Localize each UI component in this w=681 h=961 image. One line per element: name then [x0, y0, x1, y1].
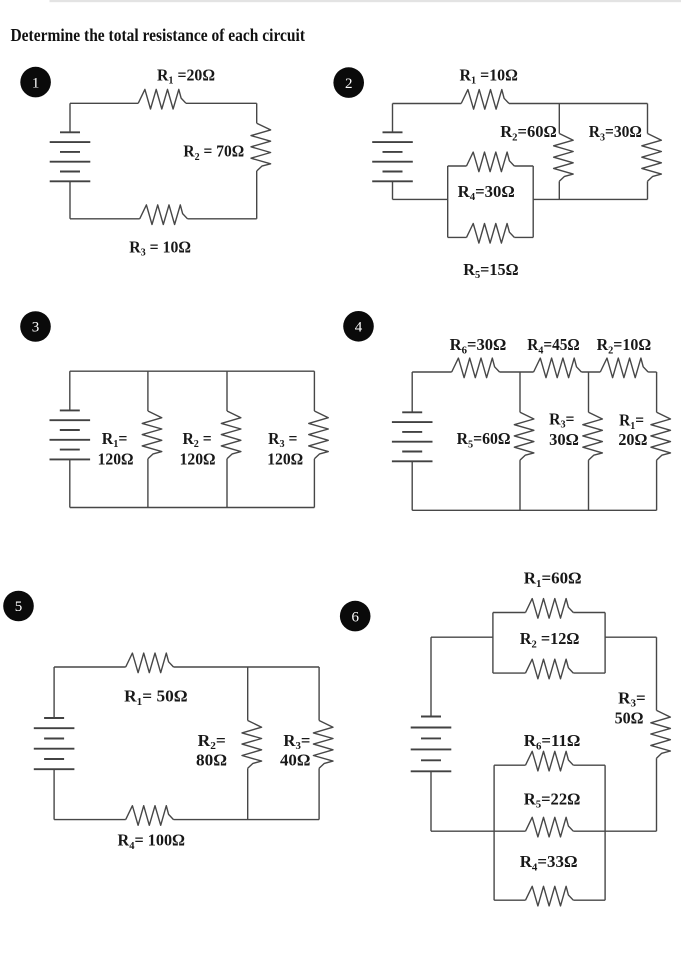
wire: R1 branch lower: [147, 459, 149, 508]
resistor R4 (45 ohm): [534, 358, 582, 378]
wire: R6 box top edge right: [573, 764, 605, 766]
svg-text:50Ω: 50Ω: [615, 709, 644, 728]
svg-text:R3=30Ω: R3=30Ω: [589, 122, 642, 143]
battery (circuit 4): [392, 412, 433, 461]
wire: circuit 2 right lower: [647, 181, 649, 199]
svg-text:120Ω: 120Ω: [98, 449, 134, 468]
resistor R4 (100 ohm): [126, 806, 174, 826]
wire: R2 branch upper: [558, 104, 560, 134]
svg-text:4: 4: [355, 320, 363, 336]
svg-text:R6=30Ω: R6=30Ω: [450, 335, 507, 356]
wire: circuit 4 top segment 4: [648, 371, 657, 373]
wire: circuit 3 top: [70, 370, 315, 372]
resistor R5 (60 ohm): [514, 412, 534, 460]
wire: circuit 5 top right: [174, 666, 320, 668]
wire: circuit 6 upper right horizontal: [605, 636, 656, 638]
problem number badge 2: [333, 67, 364, 98]
svg-text:R3=: R3=: [549, 410, 574, 431]
svg-text:R5=60Ω: R5=60Ω: [457, 429, 511, 450]
wire: circuit 6 bottom main left: [431, 830, 526, 832]
svg-text:R6=11Ω: R6=11Ω: [524, 731, 581, 752]
wire: R1/R2 box left edge: [492, 613, 494, 674]
wire: circuit 2 middle left: [393, 198, 448, 200]
svg-text:R2 =: R2 =: [182, 429, 211, 450]
problem number badge 4: [343, 311, 374, 342]
wire: circuit 5 battery upper lead: [53, 667, 55, 718]
svg-text:40Ω: 40Ω: [280, 751, 311, 770]
wire: circuit 5 right lower: [318, 768, 320, 819]
wire: circuit 6 right vertical lower: [656, 758, 658, 831]
svg-text:R1 =10Ω: R1 =10Ω: [460, 66, 518, 87]
resistor R4 (33 ohm): [526, 886, 574, 906]
resistor R6 (11 ohm): [526, 751, 574, 771]
svg-text:R3 =: R3 =: [268, 429, 297, 450]
wire: R1 branch lower: [656, 460, 658, 510]
problem number badge 6: [340, 601, 371, 632]
svg-text:120Ω: 120Ω: [180, 449, 216, 468]
resistor R3 (30 ohm): [583, 412, 603, 460]
resistor R4 (30 ohm): [467, 152, 515, 172]
wire: R2 branch upper: [226, 371, 228, 411]
wire: R4/R5 box right edge: [532, 166, 534, 237]
wire: R3 branch upper: [588, 372, 590, 412]
wire: R2 branch upper: [247, 667, 249, 721]
wire: circuit 4 battery lower lead: [411, 461, 413, 510]
svg-text:R1=: R1=: [619, 411, 644, 432]
resistor R3 (120 ohm): [309, 411, 329, 459]
svg-text:1: 1: [32, 75, 40, 91]
wire: R2 branch lower: [247, 768, 249, 819]
wire: R3 branch lower: [588, 460, 590, 510]
battery (circuit 2): [372, 132, 413, 181]
battery (circuit 5): [34, 718, 75, 769]
problem number badge 5: [3, 591, 34, 622]
svg-text:R1=: R1=: [102, 429, 128, 450]
wire: R6/R4 box left edge: [493, 765, 495, 900]
wire: circuit 1 right lower: [256, 171, 258, 219]
resistor R1 (120 ohm): [142, 411, 162, 459]
wire: R4 box bottom edge right: [573, 899, 605, 901]
resistor R5 (22 ohm): [526, 817, 574, 837]
svg-text:6: 6: [351, 609, 359, 625]
wire: R6/R4 box right edge: [604, 765, 606, 900]
resistor R3 (30 ohm): [642, 134, 662, 182]
wire: R1 box top edge left: [493, 612, 526, 614]
wire: R2 box bottom edge left: [493, 672, 526, 674]
svg-text:2: 2: [345, 76, 353, 92]
resistor R2 (12 ohm): [526, 659, 574, 679]
wire: circuit 5 top left: [54, 666, 126, 668]
svg-text:R2 = 70Ω: R2 = 70Ω: [183, 142, 244, 163]
resistor R2 (60 ohm): [554, 134, 574, 182]
svg-text:20Ω: 20Ω: [618, 430, 647, 449]
wire: circuit 2 top left: [393, 103, 462, 105]
svg-text:R4=45Ω: R4=45Ω: [527, 335, 580, 356]
svg-text:R3=: R3=: [618, 689, 646, 710]
wire: R5 branch lower: [519, 460, 521, 510]
problem number badge 3: [20, 311, 51, 342]
resistor R1 (20 ohm): [651, 412, 671, 460]
svg-text:30Ω: 30Ω: [549, 430, 579, 449]
wire: R5 branch upper: [519, 372, 521, 412]
battery (circuit 3): [50, 410, 91, 459]
wire: box bottom edge right: [514, 236, 533, 238]
wire: circuit 4 battery upper lead: [411, 372, 413, 412]
wire: circuit 4 top segment 1: [412, 371, 452, 373]
wire: R6 box top edge left: [494, 764, 525, 766]
wire: R2 box bottom edge right: [573, 672, 605, 674]
resistor R3 (40 ohm): [313, 721, 333, 769]
resistor R1 (60 ohm): [526, 599, 574, 619]
wire: circuit 6 battery lower lead: [430, 771, 432, 831]
wire: circuit 5 bottom right: [174, 819, 320, 821]
wire: circuit 6 upper left horizontal: [431, 636, 493, 638]
wire: R1 branch upper: [147, 371, 149, 411]
wire: circuit 3 battery upper lead: [69, 371, 71, 410]
svg-text:R4= 100Ω: R4= 100Ω: [118, 831, 186, 852]
wire: circuit 1 left upper: [69, 103, 71, 132]
wire: circuit 5 battery lower lead: [53, 769, 55, 819]
svg-text:R2 =12Ω: R2 =12Ω: [520, 629, 580, 650]
svg-text:R1= 50Ω: R1= 50Ω: [124, 687, 187, 708]
wire: R2 branch lower: [558, 181, 560, 199]
wire: circuit 5 bottom left: [54, 819, 126, 821]
svg-text:R2=10Ω: R2=10Ω: [597, 335, 652, 356]
wire: circuit 2 right upper: [647, 104, 649, 134]
wire: R3 branch lower: [313, 459, 315, 508]
wire: circuit 1 bottom left: [70, 218, 140, 220]
wire: circuit 2 middle right: [533, 198, 647, 200]
wire: box bottom edge left: [448, 236, 467, 238]
resistor R2 (70 ohm): [251, 123, 271, 171]
svg-text:R5=22Ω: R5=22Ω: [524, 789, 581, 810]
svg-text:5: 5: [15, 599, 23, 615]
svg-text:R1=60Ω: R1=60Ω: [524, 569, 582, 590]
top rule: [50, 0, 681, 2]
battery (circuit 1): [50, 132, 91, 181]
wire: circuit 2 top right: [509, 103, 648, 105]
wire: circuit 5 right upper: [318, 667, 320, 721]
wire: circuit 6 battery upper lead: [430, 637, 432, 716]
svg-text:R5=15Ω: R5=15Ω: [463, 260, 518, 281]
wire: circuit 4 bottom: [412, 509, 656, 511]
wire: R1 box top edge right: [573, 612, 605, 614]
wire: box top edge left: [448, 165, 467, 167]
wire: R4/R5 box left edge: [447, 166, 449, 237]
wire: R1/R2 box right edge: [604, 613, 606, 674]
svg-text:R2=: R2=: [198, 731, 226, 752]
resistor R3 (50 ohm): [651, 710, 671, 758]
svg-text:Determine the total resistance: Determine the total resistance of each c…: [11, 25, 306, 45]
wire: box top edge right: [514, 165, 533, 167]
wire: R2 branch lower: [226, 459, 228, 508]
wire: circuit 2 battery upper lead: [392, 104, 394, 133]
problem number badge 1: [20, 67, 51, 98]
svg-text:R3=: R3=: [283, 731, 310, 752]
wire: R1 branch upper: [656, 372, 658, 412]
wire: R4 box bottom edge left: [494, 899, 525, 901]
resistor R1 (50 ohm): [126, 653, 174, 673]
wire: circuit 6 bottom main right: [573, 830, 656, 832]
wire: circuit 2 battery lower lead: [392, 181, 394, 199]
svg-text:3: 3: [32, 320, 40, 336]
svg-text:120Ω: 120Ω: [267, 449, 303, 468]
resistor R3 (10 ohm): [140, 205, 188, 225]
svg-text:R4=33Ω: R4=33Ω: [520, 852, 578, 873]
wire: circuit 4 top segment 3: [581, 371, 600, 373]
battery (circuit 6): [411, 717, 452, 772]
wire: circuit 1 left lower: [69, 181, 71, 219]
wire: R3 branch upper: [313, 371, 315, 411]
wire: circuit 3 bottom: [70, 507, 315, 509]
svg-text:R3 = 10Ω: R3 = 10Ω: [129, 238, 191, 259]
resistor R1 (10 ohm): [461, 90, 509, 110]
wire: circuit 1 bottom right: [188, 218, 257, 220]
svg-text:80Ω: 80Ω: [196, 751, 227, 770]
wire: circuit 1 right upper: [256, 103, 258, 123]
resistor R2 (10 ohm): [600, 358, 648, 378]
svg-text:R4=30Ω: R4=30Ω: [458, 182, 515, 203]
resistor R5 (15 ohm): [467, 224, 515, 244]
resistor R1 (20 ohm): [138, 89, 186, 109]
resistor R2 (80 ohm): [242, 721, 262, 769]
resistor R2 (120 ohm): [221, 411, 241, 459]
resistor R6 (30 ohm): [452, 358, 500, 378]
svg-text:R1 =20Ω: R1 =20Ω: [157, 66, 215, 87]
wire: circuit 3 battery lower lead: [69, 459, 71, 507]
wire: circuit 6 right vertical upper: [656, 637, 658, 710]
wire: circuit 1 top right: [186, 102, 257, 104]
wire: circuit 1 top left: [70, 102, 138, 104]
wire: circuit 4 top segment 2: [500, 371, 534, 373]
svg-text:R2=60Ω: R2=60Ω: [500, 122, 557, 143]
